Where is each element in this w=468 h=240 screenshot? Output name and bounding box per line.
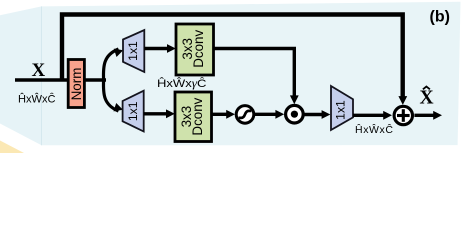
svg-text:1x1: 1x1 — [126, 101, 140, 121]
svg-text:Dconv: Dconv — [190, 97, 205, 135]
wire: bottom dconv to sigmoid — [212, 113, 228, 116]
dconv box (top) 3x3 — [176, 24, 214, 75]
panel (a) edge sliver — [0, 6, 42, 145]
svg-text:Norm: Norm — [69, 68, 84, 101]
panel (b) background — [42, 2, 461, 146]
svg-text:ĤxŴxĈ: ĤxŴxĈ — [355, 123, 393, 136]
wire: multiplier to final 1x1 — [304, 113, 322, 116]
orange corner wedge — [0, 141, 24, 154]
wire: skip connection (X to adder) — [62, 15, 403, 98]
arrowhead into sigmoid — [226, 110, 235, 119]
arrowhead into multiplier from left — [275, 110, 284, 119]
svg-text:X: X — [420, 87, 434, 108]
svg-text:X: X — [32, 60, 46, 81]
wire: final 1x1 to adder — [353, 114, 385, 117]
svg-text:Dconv: Dconv — [191, 30, 206, 68]
norm box — [68, 60, 84, 108]
svg-text:ĤxŴxĈ: ĤxŴxĈ — [18, 92, 56, 105]
svg-text:(b): (b) — [430, 9, 450, 26]
wire: top dconv to multiplier (over-and-down) — [214, 49, 295, 97]
panel divider line — [41, 6, 43, 145]
wire: split curve to both 1x1 — [103, 49, 118, 111]
1x1 conv trapezoid (final, compressing) — [331, 86, 353, 130]
wire: top 1x1 to top dconv — [144, 47, 168, 50]
svg-text:1x1: 1x1 — [126, 41, 140, 61]
1x1 conv trapezoid (bottom branch) — [123, 91, 144, 132]
wire: input X line — [15, 78, 106, 81]
arrowhead into final 1x1 — [322, 110, 331, 119]
sigmoid S glyph — [239, 111, 252, 118]
wire: bottom 1x1 to bottom dconv — [144, 112, 168, 115]
wire: sigmoid to multiplier — [255, 113, 278, 116]
wire: adder to output — [414, 114, 434, 117]
sigmoid activation circle — [236, 106, 254, 124]
arrowhead into adder from left — [383, 111, 392, 120]
arrowhead into top dconv — [167, 44, 176, 53]
1x1 conv trapezoid (top branch) — [123, 30, 144, 72]
arrowhead into bottom 1x1 — [114, 103, 124, 111]
svg-text:ĤxŴxγĈ: ĤxŴxγĈ — [157, 77, 207, 90]
arrowhead into top 1x1 — [114, 49, 123, 57]
arrowhead down into multiplier — [290, 95, 299, 104]
arrowhead skip into adder — [398, 96, 407, 105]
dconv box (bottom) 3x3 — [175, 92, 212, 142]
arrowhead into bottom dconv — [166, 109, 175, 118]
arrowhead output — [433, 111, 442, 120]
multiplier node (circle-dot) — [286, 105, 304, 123]
adder node (circle-plus) — [394, 106, 412, 124]
svg-text:1x1: 1x1 — [333, 100, 347, 120]
